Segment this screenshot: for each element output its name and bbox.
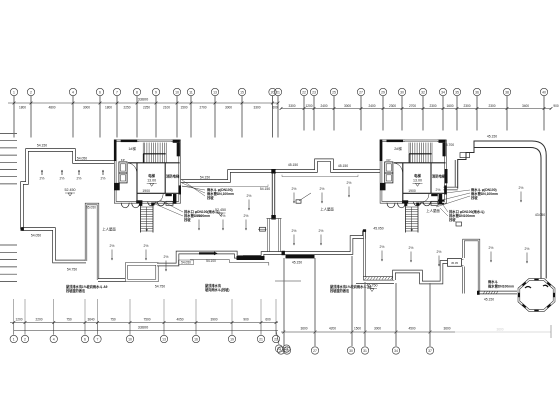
svg-text:45.150: 45.150 (484, 298, 494, 302)
core 1 wall fills (121, 140, 138, 143)
core 2 bottom bumps (387, 203, 395, 208)
svg-text:2%: 2% (77, 177, 82, 181)
duct box right of core2 (460, 153, 470, 158)
svg-text:43.050: 43.050 (535, 213, 545, 217)
svg-text:22: 22 (302, 91, 306, 95)
axis circle 10 bottom (129, 323, 131, 335)
svg-text:消防电梯: 消防电梯 (432, 173, 446, 178)
axis circle 1 (10, 88, 17, 95)
svg-text:16: 16 (194, 338, 198, 342)
svg-text:上人屋面: 上人屋面 (320, 207, 334, 212)
svg-text:25: 25 (285, 349, 289, 353)
axis circle 2 (27, 88, 34, 95)
grid line 8 (136, 96, 138, 138)
svg-text:2: 2 (24, 338, 26, 342)
grid line 27 (360, 96, 362, 131)
octagon turret (519, 280, 554, 311)
svg-text:找坡: 找坡 (207, 195, 214, 200)
left unit bottom low parapet (98, 278, 127, 281)
grid line 2 (30, 96, 32, 138)
svg-text:30: 30 (349, 349, 353, 353)
grid line 34 (442, 96, 444, 131)
svg-text:1: 1 (13, 91, 15, 95)
parapet to octagon (478, 291, 517, 294)
right roof corridor parapet inner (474, 148, 541, 280)
svg-text:13.00: 13.00 (147, 178, 156, 182)
party wall axis 21 (272, 171, 275, 219)
core 1 bottom bumps (121, 203, 129, 208)
grid line 35 (456, 96, 458, 131)
svg-text:1900: 1900 (408, 189, 416, 193)
svg-text:2%: 2% (320, 187, 325, 191)
axis circle 27 (357, 88, 364, 95)
svg-text:54.050: 54.050 (77, 157, 87, 161)
svg-text:13: 13 (162, 338, 166, 342)
svg-text:33600: 33600 (138, 325, 149, 329)
grid line 38 (506, 96, 508, 131)
svg-text:3600: 3600 (496, 328, 503, 332)
svg-text:900: 900 (243, 317, 249, 321)
grid line 10 (176, 96, 178, 138)
axis circle 24 bottom right (277, 347, 284, 354)
svg-text:4800: 4800 (48, 105, 55, 109)
grid line 21 (277, 96, 279, 138)
svg-text:27: 27 (359, 91, 363, 95)
grid line 30 (401, 96, 403, 131)
axis circle 21 bottom (260, 323, 262, 335)
bottom grid verticals right group (283, 258, 285, 346)
svg-text:3300: 3300 (288, 104, 295, 108)
roof drain gutter line (190, 260, 269, 266)
svg-text:2%: 2% (436, 188, 441, 192)
black gutter bar right unit (286, 255, 315, 258)
axis circle 21 (274, 88, 281, 95)
bottom dimension right group (281, 331, 455, 333)
axis circle 10 (173, 88, 180, 95)
svg-text:7: 7 (97, 338, 99, 342)
bottom grid verticals left group (13, 299, 15, 323)
black chunk below terrace (438, 200, 444, 205)
svg-text:2300: 2300 (463, 104, 470, 108)
svg-text:54.750: 54.750 (155, 285, 165, 289)
core 2 interior walls (394, 163, 446, 203)
svg-text:1: 1 (13, 338, 15, 342)
svg-text:上人屋面: 上人屋面 (426, 208, 440, 213)
left unit bottom west steps (22, 229, 86, 262)
svg-text:15: 15 (240, 91, 244, 95)
hatched gutter trench (364, 277, 395, 281)
core 1 west closet (119, 162, 127, 173)
black cap west end right parapet (282, 251, 285, 255)
svg-text:3000: 3000 (344, 104, 351, 108)
grid line 6 (99, 96, 101, 138)
axis circle 25 bottom right (283, 347, 290, 354)
left unit bottom east band (157, 253, 284, 265)
svg-text:3400: 3400 (522, 104, 529, 108)
axis circle 38 (503, 88, 510, 95)
core 2 west closet (385, 162, 393, 173)
svg-text:29: 29 (381, 91, 385, 95)
right unit bottom wall drop (363, 231, 365, 278)
core 1 stair treads (144, 143, 146, 163)
core 2 door arcs (394, 163, 403, 173)
axis circle 8 (133, 88, 140, 95)
core 2 outer wall (381, 141, 446, 203)
svg-text:8: 8 (136, 91, 138, 95)
side box stubs (462, 260, 464, 266)
svg-text:1800: 1800 (105, 105, 112, 109)
axis circle 23 (310, 88, 317, 95)
core 1 door arcs (128, 163, 137, 173)
svg-text:2%: 2% (247, 194, 252, 198)
svg-text:45.150: 45.150 (292, 261, 302, 265)
leader text T4 drain right (440, 205, 448, 216)
svg-text:45.05: 45.05 (451, 261, 458, 265)
svg-text:4: 4 (72, 91, 74, 95)
svg-text:34: 34 (441, 91, 445, 95)
svg-text:2%: 2% (144, 244, 149, 248)
axis circle 6 bottom (84, 323, 86, 335)
svg-text:找坡: 找坡 (449, 217, 456, 222)
svg-text:2250: 2250 (143, 105, 150, 109)
svg-text:54.150: 54.150 (260, 187, 270, 191)
svg-text:2%: 2% (164, 255, 169, 259)
rain hopper symbol (260, 227, 266, 231)
svg-text:6: 6 (84, 338, 86, 342)
right unit top parapet (276, 160, 381, 171)
svg-text:4: 4 (53, 338, 55, 342)
axis circle 30 bottom right (347, 347, 354, 354)
grid line 9 (155, 96, 157, 138)
svg-text:36: 36 (475, 91, 479, 95)
axis circle 25 (330, 88, 337, 95)
svg-text:21: 21 (276, 91, 280, 95)
svg-text:2400: 2400 (368, 104, 375, 108)
svg-text:2%: 2% (101, 177, 106, 181)
svg-text:45.700: 45.700 (444, 143, 454, 147)
svg-text:6: 6 (99, 91, 101, 95)
axis circle 40 (540, 88, 547, 95)
svg-text:25: 25 (332, 91, 336, 95)
legend box (456, 222, 462, 226)
svg-text:3900: 3900 (210, 317, 217, 321)
svg-text:1500: 1500 (354, 326, 361, 330)
axis circle 34 (439, 88, 446, 95)
grid line 20 (272, 96, 274, 138)
svg-text:2%: 2% (292, 229, 297, 233)
svg-text:1800: 1800 (19, 105, 26, 109)
duct shaft east wall (279, 219, 281, 254)
leader text T3 rainwater hopper right (436, 190, 470, 207)
svg-text:10: 10 (175, 91, 179, 95)
svg-text:3000: 3000 (225, 105, 232, 109)
svg-text:37: 37 (428, 349, 432, 353)
svg-text:3300: 3300 (253, 105, 260, 109)
svg-text:找坡度的做法: 找坡度的做法 (66, 288, 86, 293)
grid line 40 (543, 96, 545, 131)
svg-text:2#梯: 2#梯 (394, 146, 402, 151)
svg-text:2250: 2250 (123, 105, 130, 109)
svg-text:10: 10 (128, 338, 132, 342)
axis circle 4 bottom (53, 323, 55, 335)
axis circle 7 bottom (97, 323, 99, 335)
axis circle 22 (300, 88, 307, 95)
axis circle 7 (113, 88, 120, 95)
grid line 22 (303, 96, 305, 131)
grid line 1 (13, 96, 15, 138)
svg-text:34: 34 (394, 349, 398, 353)
svg-text:1200: 1200 (305, 104, 312, 108)
axis circle 34 bottom right (392, 347, 399, 354)
svg-text:KP: KP (386, 158, 390, 162)
octagon inner marks (525, 287, 531, 289)
svg-text:9: 9 (155, 91, 157, 95)
svg-text:52.450: 52.450 (215, 208, 226, 212)
svg-text:13.00: 13.00 (413, 178, 422, 182)
svg-text:11: 11 (189, 91, 193, 95)
axis circle 13 (211, 88, 218, 95)
grid line 25 (333, 96, 335, 131)
rain hopper on core2 south wall (431, 201, 438, 205)
svg-text:750: 750 (66, 317, 72, 321)
planter pit box (127, 264, 158, 281)
core 2 wall fills (387, 140, 404, 143)
svg-text:2%: 2% (437, 250, 442, 254)
grid line 29 (382, 96, 384, 131)
core 1 outer wall (115, 141, 180, 203)
core 2 stair treads (410, 143, 412, 163)
fold mark (275, 280, 301, 282)
svg-text:2%: 2% (525, 247, 530, 251)
axis circle 32 (419, 88, 426, 95)
svg-text:2300: 2300 (389, 104, 396, 108)
svg-text:电梯: 电梯 (414, 173, 421, 178)
svg-text:2%: 2% (380, 245, 385, 249)
svg-text:KP: KP (121, 158, 125, 162)
svg-text:3000: 3000 (83, 105, 90, 109)
axis circle 37 bottom right (426, 347, 433, 354)
octagon edge marks (547, 304, 552, 308)
grid line 23 (313, 96, 315, 131)
down stair left unit (140, 204, 142, 233)
svg-text:2%: 2% (489, 246, 494, 250)
svg-text:54.050: 54.050 (31, 234, 41, 238)
axis circle 6 (96, 88, 103, 95)
svg-text:45.150: 45.150 (487, 135, 497, 139)
right unit bottom east steps (394, 262, 448, 283)
bottom dimension left group (10, 322, 278, 324)
svg-text:2700: 2700 (409, 104, 416, 108)
svg-text:2100: 2100 (163, 105, 170, 109)
svg-text:19: 19 (230, 338, 234, 342)
svg-text:4200: 4200 (329, 326, 336, 330)
terrace wall inner line (454, 160, 456, 187)
svg-text:上人屋面: 上人屋面 (102, 227, 116, 232)
black gutter bar left unit (237, 256, 265, 260)
svg-text:2700: 2700 (199, 105, 206, 109)
svg-text:31: 31 (363, 349, 367, 353)
svg-text:3600: 3600 (443, 326, 450, 330)
axis circle 9 (152, 88, 159, 95)
top dimension line right group (281, 108, 551, 110)
svg-text:54.150: 54.150 (200, 176, 210, 180)
svg-text:4050: 4050 (176, 317, 183, 321)
svg-text:2400: 2400 (320, 104, 327, 108)
svg-text:13: 13 (213, 91, 217, 95)
svg-text:坡向雨水斗(找坡): 坡向雨水斗(找坡) (205, 287, 229, 292)
svg-text:1900: 1900 (142, 189, 150, 193)
svg-text:4500: 4500 (408, 326, 415, 330)
svg-text:电梯: 电梯 (148, 173, 155, 178)
svg-text:找坡: 找坡 (471, 195, 478, 200)
svg-text:雨水管DN100mm: 雨水管DN100mm (488, 283, 514, 288)
core 2 east wall black bar (445, 169, 448, 183)
svg-text:1500: 1500 (180, 105, 187, 109)
gutter leader left (182, 185, 268, 187)
axis circle 15 (238, 88, 245, 95)
axis circle 13 bottom (163, 323, 165, 335)
svg-text:45.150: 45.150 (288, 163, 298, 167)
svg-text:45.750: 45.750 (367, 284, 378, 288)
svg-text:7500: 7500 (143, 317, 150, 321)
axis circle 31 bottom right (361, 347, 368, 354)
right roof corridor parapet outer (458, 141, 547, 279)
svg-text:2%: 2% (347, 181, 352, 185)
side level box 45.050 (448, 259, 462, 267)
axis circle 29 (379, 88, 386, 95)
duct shaft west wall (268, 219, 270, 254)
vent shaft right unit (464, 240, 480, 294)
svg-text:600: 600 (265, 317, 271, 321)
svg-text:3640: 3640 (87, 317, 94, 321)
svg-text:3600: 3600 (300, 326, 307, 330)
svg-text:2%: 2% (197, 214, 202, 218)
svg-text:52.450: 52.450 (65, 188, 76, 192)
axis circle 36 (473, 88, 480, 95)
rain hopper mark mid roof (296, 200, 301, 203)
vent shaft left unit (86, 204, 98, 280)
leader text T1 rainwater hopper left (182, 180, 205, 196)
svg-text:消防电梯: 消防电梯 (166, 173, 180, 178)
core 1 interior walls (128, 163, 180, 203)
svg-text:750: 750 (110, 317, 116, 321)
svg-text:找坡度的做法: 找坡度的做法 (330, 288, 350, 293)
svg-text:2300: 2300 (488, 104, 495, 108)
left margin ruler group 1 (0, 133, 17, 135)
svg-text:1#梯: 1#梯 (128, 146, 136, 151)
grid line 32 (422, 96, 424, 131)
svg-text:32: 32 (421, 91, 425, 95)
svg-text:30: 30 (400, 91, 404, 95)
grid line 36 (476, 96, 478, 131)
grid line 11 (190, 96, 192, 138)
black leader bar west (199, 252, 214, 254)
top dimension line left group (8, 102, 278, 104)
axis circle 20 (269, 88, 276, 95)
svg-text:2%: 2% (40, 177, 45, 181)
svg-text:54.750: 54.750 (67, 268, 77, 272)
black tick at west step (21, 227, 24, 231)
svg-text:3000: 3000 (374, 326, 381, 330)
axis circle 35 (453, 88, 460, 95)
svg-text:24: 24 (279, 349, 283, 353)
svg-text:55.050: 55.050 (86, 206, 96, 210)
svg-text:2%: 2% (519, 186, 524, 190)
axis circle 16 bottom (195, 323, 197, 335)
black cap top of wall drop (363, 229, 366, 232)
terrace wall right of core2 (444, 187, 458, 190)
svg-text:23: 23 (312, 91, 316, 95)
svg-text:2%: 2% (60, 177, 65, 181)
svg-text:找坡: 找坡 (184, 217, 191, 222)
down stair right unit (405, 204, 407, 233)
svg-text:1600: 1600 (446, 104, 453, 108)
svg-text:54.150: 54.150 (37, 143, 47, 147)
svg-text:45.150: 45.150 (338, 164, 348, 168)
svg-text:40: 40 (542, 91, 546, 95)
left unit west and top parapet (22, 150, 116, 229)
slope mark 2% up (61, 170, 63, 175)
svg-text:54.100: 54.100 (206, 259, 216, 263)
left margin ruler group 2 (0, 244, 17, 246)
svg-text:7: 7 (116, 91, 118, 95)
black leader bar east (243, 256, 261, 258)
slope mark 2% up (41, 170, 43, 175)
svg-text:54.050: 54.050 (181, 261, 191, 265)
axis circle 27 bottom right (311, 347, 318, 354)
svg-text:33600: 33600 (138, 98, 149, 102)
svg-text:38: 38 (505, 91, 509, 95)
axis circle 22 bottom (275, 323, 277, 335)
right unit bottom west (284, 231, 364, 254)
svg-text:20: 20 (271, 91, 275, 95)
leader text T2 drain left (155, 200, 183, 216)
svg-text:45.050: 45.050 (373, 227, 383, 231)
svg-text:2%: 2% (319, 229, 324, 233)
svg-text:900: 900 (553, 104, 559, 108)
slope mark 2% up (102, 170, 104, 175)
svg-text:2%: 2% (292, 187, 297, 191)
svg-text:600: 600 (272, 105, 278, 109)
svg-text:27: 27 (313, 349, 317, 353)
grid line 7 (116, 96, 118, 138)
gutter leader right (282, 175, 358, 177)
svg-text:21: 21 (259, 338, 263, 342)
axis circle 30 (398, 88, 405, 95)
svg-text:2%: 2% (110, 244, 115, 248)
grid line 13 (214, 96, 216, 138)
axis circle 2 bottom (24, 323, 26, 335)
svg-text:2: 2 (30, 91, 32, 95)
svg-text:35: 35 (455, 91, 459, 95)
axis circle pair 23 24 bottom (276, 331, 279, 345)
duct shaft top (267, 218, 282, 220)
hatch in parapet to octagon (483, 291, 485, 294)
svg-text:2%: 2% (244, 214, 249, 218)
svg-text:2200: 2200 (35, 317, 42, 321)
grid line 4 (72, 96, 74, 138)
grid line 15 (241, 96, 243, 138)
rain hopper on core1 south wall (166, 201, 173, 205)
svg-text:2%: 2% (409, 246, 414, 250)
axis circle 11 (187, 88, 194, 95)
gutter edge line (356, 283, 394, 285)
slope mark 2% up (78, 170, 80, 175)
axis circle 4 (69, 88, 76, 95)
parapet between core1 and party wall (180, 171, 272, 181)
axis circle 1 bottom (13, 323, 15, 335)
svg-text:2300: 2300 (429, 104, 436, 108)
